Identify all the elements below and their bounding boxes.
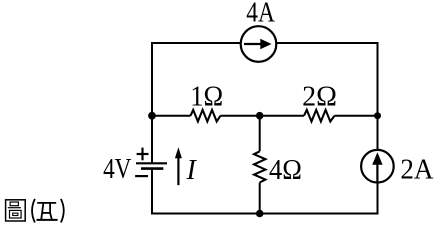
wire top-left (node top to 4A source)	[152, 43, 241, 116]
svg-text:I: I	[186, 155, 198, 186]
battery V1 bottom plate	[141, 167, 163, 170]
battery V1 top plate	[136, 155, 167, 163]
wire bottom-right	[260, 183, 378, 214]
wire middle-center (1-ohm to node B to 2-ohm)	[221, 115, 305, 117]
figure caption open paren	[32, 199, 35, 223]
wire middle-right (2-ohm to node C)	[335, 115, 378, 117]
svg-text:2A: 2A	[400, 155, 434, 186]
junction node A (left-middle)	[148, 112, 156, 120]
wire middle-left (node A to 1-ohm)	[152, 115, 191, 117]
svg-text:4Ω: 4Ω	[269, 155, 302, 186]
svg-text:2Ω: 2Ω	[302, 81, 337, 112]
figure caption glyph five (CJK)	[37, 203, 58, 220]
wire middle vertical (node B to 4-ohm)	[259, 116, 261, 152]
wire left branch upper (node A to battery)	[151, 116, 153, 164]
current source 2A	[361, 150, 394, 183]
figure caption close paren	[61, 199, 64, 223]
junction node B (center-middle)	[256, 112, 264, 120]
svg-text:4A: 4A	[246, 0, 275, 28]
svg-text:1Ω: 1Ω	[190, 81, 223, 112]
junction node D (center-bottom)	[256, 210, 264, 218]
resistor 4ohm	[254, 151, 265, 182]
wire top-right (4A source to right branch)	[276, 43, 377, 150]
battery minus sign	[135, 175, 148, 177]
junction node C (right-middle)	[374, 112, 381, 119]
figure caption glyph tu (CJK)	[6, 200, 26, 221]
current source 4A	[241, 26, 277, 62]
wire 4-ohm to bottom node	[259, 183, 261, 214]
current arrow I	[175, 147, 182, 185]
resistor 2ohm	[304, 110, 335, 122]
battery plus sign	[137, 148, 149, 161]
wire left branch lower (battery to bottom)	[152, 169, 260, 214]
svg-text:4V: 4V	[103, 154, 131, 185]
resistor 1ohm	[191, 110, 221, 122]
